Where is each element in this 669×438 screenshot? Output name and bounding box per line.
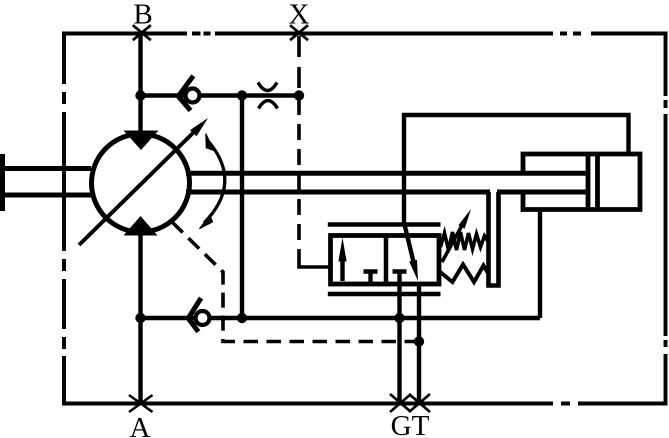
spring adjustment arrow (442, 209, 471, 262)
feedback linkage yoke (489, 192, 499, 286)
port B cross mark (133, 25, 151, 40)
port A cross mark (129, 395, 153, 412)
drain / control dashed line from pump (172, 222, 223, 335)
pump/motor main circle (92, 134, 190, 232)
port T cross mark (409, 394, 430, 412)
wire supply riser and overhead line to cylinder (404, 115, 629, 225)
wire cylinder bottom port down (538, 210, 542, 319)
variable displacement arrow (79, 118, 208, 245)
enclosure chain-line border right (664, 32, 668, 406)
valve left cell blocked port T (364, 272, 378, 284)
junction dot A branch (135, 313, 145, 323)
junction dot mid branch (237, 90, 247, 100)
control valve divider (384, 236, 389, 285)
wire G line (397, 284, 401, 404)
piston rod upper line (186, 171, 588, 176)
enclosure chain-line border bottom (62, 402, 668, 406)
junction dot B branch (135, 90, 145, 100)
piston rod lower line (186, 190, 588, 195)
swivel angle double arrow arc (199, 134, 224, 229)
wire A line (pump to port A) (138, 232, 142, 404)
control valve rails (proportional) (328, 225, 441, 295)
wire B line (port B to pump) (138, 34, 142, 135)
cylinder body (523, 154, 640, 210)
port X cross mark (290, 25, 308, 40)
enclosure chain-line border left (62, 32, 66, 406)
check valve V2 (bottom) (188, 298, 209, 332)
pump flow triangle top (124, 131, 159, 151)
svg-text:A: A (130, 412, 151, 438)
spring dense (power control) (441, 232, 489, 250)
port G cross mark (390, 394, 411, 412)
svg-text:B: B (133, 0, 152, 31)
junction dot G bottom branch (394, 313, 404, 323)
cylinder piston (588, 156, 598, 208)
junction dot pilot branch (294, 90, 304, 100)
spring main (439, 265, 489, 283)
valve left cell arrow (338, 238, 346, 282)
valve right cell diagonal arrow (405, 225, 419, 282)
enclosure chain-line border top (62, 32, 668, 36)
valve right cell blocked port T (393, 272, 407, 284)
pilot line X (dashed) (299, 36, 331, 267)
junction dot mid bottom (237, 313, 247, 323)
wire branch vertical x=242 (240, 96, 244, 319)
pump flow triangle bottom (124, 216, 158, 236)
wire bottom branch (141, 316, 541, 320)
junction dot T drain (414, 336, 424, 346)
check valve V1 (top) (178, 76, 199, 111)
wire T line (417, 284, 421, 404)
drive shaft (0, 154, 91, 211)
orifice (restrictor) (258, 83, 278, 109)
svg-text:GT: GT (391, 410, 430, 438)
svg-text:X: X (289, 0, 310, 31)
wire top branch B to pilot node (141, 93, 300, 97)
control valve body (331, 236, 440, 285)
